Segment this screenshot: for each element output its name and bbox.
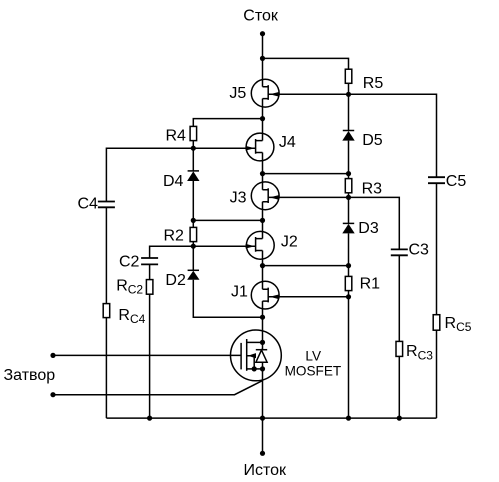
capacitor C2 bbox=[141, 258, 158, 264]
node J1 source / MOSFET drain bbox=[260, 315, 265, 320]
wire gate terminal to MOSFET gate bbox=[53, 354, 241, 356]
resistor R4 bbox=[190, 126, 197, 140]
svg-text:R3: R3 bbox=[362, 181, 383, 198]
wire main drain vertical (Сток terminal down to J5) bbox=[262, 34, 264, 87]
svg-text:C2: C2 bbox=[119, 254, 140, 271]
transistor J2 bbox=[246, 231, 274, 259]
svg-text:R1: R1 bbox=[360, 275, 381, 292]
transistor J4 bbox=[246, 133, 274, 161]
svg-text:Сток: Сток bbox=[243, 8, 279, 25]
resistor R3 bbox=[345, 179, 352, 193]
transistor LV MOSFET bbox=[231, 330, 282, 381]
drain stub bbox=[247, 341, 263, 343]
diode D5 bbox=[342, 131, 354, 141]
svg-text:Затвор: Затвор bbox=[4, 367, 56, 384]
node R3 bottom / J3 gate bbox=[346, 195, 351, 200]
wire D4 anode down to R2 top bbox=[192, 181, 194, 227]
wire bottom source rail bbox=[106, 417, 436, 419]
node D4 anode / R2 top bbox=[191, 218, 196, 223]
node D5 anode / right column bbox=[346, 171, 351, 176]
diode D2 bbox=[187, 270, 199, 280]
wire J1 source to MOSFET drain bbox=[262, 301, 264, 350]
wire J3 source to J2 drain bbox=[262, 202, 264, 239]
transistor J3 bbox=[251, 182, 279, 210]
wire RC2 bottom to bottom rail bbox=[149, 294, 151, 418]
wire J2 gate line to R2 bottom node and C2 rail bbox=[150, 246, 256, 258]
node J5 source / J4 drain bbox=[260, 116, 265, 121]
svg-text:D4: D4 bbox=[163, 173, 184, 190]
body arrow bbox=[248, 353, 256, 358]
resistor R2 bbox=[190, 227, 197, 241]
node J2 source / J1 drain bbox=[260, 263, 265, 268]
wire J2 source node to right column bbox=[263, 265, 349, 267]
arrow J3 gate bbox=[270, 195, 279, 200]
transistor J5 bbox=[251, 79, 279, 107]
node R1 bottom / J1 gate bbox=[346, 294, 351, 299]
node R1 column on bottom rail bbox=[346, 416, 351, 421]
wire R1 bottom to bottom rail bbox=[348, 291, 350, 419]
node drain / R5 branch bbox=[260, 56, 265, 61]
resistor R5 bbox=[345, 69, 352, 83]
node R4 bottom / J4 gate bbox=[191, 146, 196, 151]
svg-text:D3: D3 bbox=[358, 220, 379, 237]
arrow J1 gate bbox=[270, 295, 279, 300]
wire C4 bottom to RC4 bbox=[105, 207, 107, 303]
wire C5 bottom to RC5 bbox=[436, 183, 438, 315]
wire R2 bottom to D2 bbox=[192, 242, 194, 271]
node Сток terminal bbox=[260, 31, 265, 36]
wire C2 bottom to RC2 bbox=[149, 264, 151, 279]
svg-text:R2: R2 bbox=[164, 228, 185, 245]
svg-text:C3: C3 bbox=[409, 241, 430, 258]
capacitor C3 bbox=[391, 249, 408, 255]
node MOSFET drain stub bbox=[260, 340, 265, 345]
wire MOSFET source down to bottom rail and Исток terminal bbox=[262, 362, 264, 453]
channel bar bbox=[246, 339, 248, 371]
wire J5 gate line to R5 bottom node and C5 rail bbox=[268, 94, 436, 177]
svg-text:J4: J4 bbox=[279, 134, 296, 151]
diode D3 bbox=[342, 223, 354, 233]
node RC3 rail on bottom rail bbox=[397, 416, 402, 421]
svg-text:J5: J5 bbox=[229, 85, 246, 102]
svg-text:LV: LV bbox=[305, 349, 321, 364]
svg-text:D5: D5 bbox=[362, 132, 383, 149]
wire J3 source node to left column (D4 anode / R2 top) bbox=[193, 219, 262, 221]
wire D2 anode down and right to J1 source node bbox=[193, 280, 262, 317]
wire left column R4 bottom to D4 bbox=[192, 141, 194, 171]
resistor RC2 bbox=[146, 280, 153, 295]
node Затвор terminal 1 bbox=[50, 353, 55, 358]
wire D3 anode down to J2 source node and R1 top bbox=[348, 233, 350, 276]
resistor RC4 bbox=[103, 304, 110, 318]
wire J3 gate line to R3 bottom node and C3 rail bbox=[268, 197, 399, 249]
svg-text:C5: C5 bbox=[446, 173, 467, 190]
svg-text:J2: J2 bbox=[281, 234, 298, 251]
wire R3 bottom to D3 bbox=[348, 193, 350, 224]
resistor R1 bbox=[345, 276, 352, 290]
wire RC3 bottom to bottom rail bbox=[398, 356, 400, 418]
source stub bbox=[247, 368, 263, 370]
wire C3 bottom to RC3 bbox=[398, 255, 400, 341]
wire RC5 bottom to bottom rail bbox=[436, 330, 438, 418]
node J3 source / J2 drain bbox=[260, 218, 265, 223]
node R2 bottom / J2 gate bbox=[191, 244, 196, 249]
svg-text:R5: R5 bbox=[363, 75, 384, 92]
arrow J5 gate bbox=[270, 92, 279, 97]
capacitor C5 bbox=[428, 177, 445, 183]
wire D5 anode down to J4 source node and R3 top bbox=[348, 141, 350, 179]
wire R5 branch from drain node to R5 top bbox=[263, 58, 349, 69]
capacitor C4 bbox=[98, 202, 115, 208]
wire J4 gate line to R4 bottom node and C4 rail bbox=[106, 148, 255, 201]
svg-text:J1: J1 bbox=[231, 284, 248, 301]
transistor J1 bbox=[251, 281, 279, 309]
node Исток terminal bbox=[260, 451, 265, 456]
node D3 anode / right column bbox=[346, 263, 351, 268]
wire right column R5 bottom to D5 bbox=[348, 83, 350, 130]
wire J2 source to J1 drain bbox=[262, 251, 264, 290]
wire J4 source to J3 drain bbox=[262, 153, 264, 190]
wire gate return terminal to MOSFET source bbox=[53, 381, 263, 395]
wire J5 source to J4 drain bbox=[262, 99, 264, 141]
wire J4 source node to right column bbox=[263, 173, 349, 175]
wire J1 gate line to R1 bottom node bbox=[268, 296, 348, 298]
wire RC4 bottom to bottom rail bbox=[105, 318, 107, 419]
svg-text:D2: D2 bbox=[165, 272, 186, 289]
node MOSFET body-source tie bbox=[252, 366, 257, 371]
svg-text:MOSFET: MOSFET bbox=[285, 364, 342, 379]
svg-text:C4: C4 bbox=[78, 196, 99, 213]
node main on bottom rail bbox=[260, 416, 265, 421]
arrow J4 gate bbox=[246, 146, 255, 151]
diode D4 bbox=[187, 171, 199, 181]
arrow J2 gate bbox=[246, 244, 255, 249]
node C2 rail on bottom rail bbox=[147, 416, 152, 421]
svg-text:Исток: Исток bbox=[244, 462, 288, 479]
node R5 bottom / J5 gate bbox=[346, 92, 351, 97]
resistor RC5 bbox=[433, 315, 440, 331]
svg-text:J3: J3 bbox=[230, 190, 247, 207]
svg-text:R4: R4 bbox=[166, 128, 187, 145]
resistor RC3 bbox=[396, 341, 403, 356]
wire branch to R4 top bbox=[193, 119, 262, 127]
node MOSFET source stub bbox=[260, 366, 265, 371]
node J4 source / J3 drain bbox=[260, 171, 265, 176]
body diode bbox=[256, 349, 267, 351]
gate bar bbox=[240, 343, 242, 370]
node Затвор terminal 2 bbox=[50, 392, 55, 397]
